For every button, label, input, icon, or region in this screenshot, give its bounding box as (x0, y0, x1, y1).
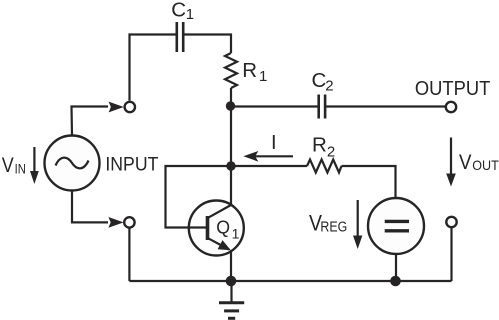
wire C2 to output terminal (325, 105, 445, 107)
arrowhead into top input terminal (109, 102, 124, 113)
wire DC source to bottom node (395, 254, 397, 281)
wire top rail right segment (183, 35, 231, 54)
AC source sine wave (56, 158, 89, 169)
svg-text:IN: IN (15, 161, 26, 177)
AC source circle (45, 136, 100, 191)
wire AC top to arrow (72, 107, 109, 136)
wire feedback loop (166, 166, 232, 228)
svg-text:I: I (271, 132, 277, 154)
label C1 (171, 0, 194, 23)
label R2 (312, 133, 335, 160)
DC source V_REG circle (368, 198, 424, 254)
node junction dot (R1/C2) (226, 101, 235, 110)
svg-text:OUT: OUT (472, 157, 499, 173)
capacitor C2 (319, 95, 325, 119)
svg-text:C: C (312, 69, 327, 92)
arrow V_IN (30, 147, 39, 184)
label OUTPUT (415, 77, 491, 100)
wire bottom rail (129, 280, 451, 282)
label V_IN (2, 154, 26, 177)
label I (271, 132, 277, 154)
wire node to C2 (231, 105, 319, 107)
arrowhead into bottom input terminal (108, 217, 123, 228)
label R1 (242, 59, 267, 85)
transistor Q1 collector line (208, 205, 231, 218)
label V_REG (309, 210, 347, 235)
wire emitter to bottom node (230, 250, 232, 281)
wire AC bottom to arrow (72, 191, 108, 223)
svg-text:C: C (171, 0, 186, 21)
node junction dot (feedback/R2) (226, 161, 235, 170)
wire bottom terminal to bottom rail (128, 228, 130, 281)
label INPUT (105, 154, 158, 176)
output terminal (446, 102, 456, 112)
wire R1 to node (230, 88, 232, 107)
arrow V_REG (353, 200, 362, 249)
svg-text:Q: Q (216, 217, 230, 238)
wire top rail left segment (130, 35, 177, 101)
wire right terminal drop (450, 228, 452, 281)
arrow V_OUT (446, 138, 456, 187)
resistor R2 (307, 160, 342, 173)
input terminal top (125, 102, 135, 112)
label Q1 (216, 217, 239, 242)
wire main vertical node to node (230, 107, 232, 167)
svg-text:1: 1 (232, 225, 240, 241)
ground (219, 281, 244, 318)
svg-text:V: V (2, 154, 14, 177)
svg-text:REG: REG (320, 220, 347, 236)
wire node to R2 (231, 165, 307, 167)
resistor R1 (225, 53, 237, 88)
svg-text:1: 1 (186, 6, 194, 23)
svg-text:OUTPUT: OUTPUT (415, 77, 491, 100)
transistor Q1 base bar (206, 216, 210, 240)
node junction dot (emitter/ground) (226, 276, 237, 287)
label C2 (312, 69, 334, 94)
DC source equals sign (385, 221, 409, 230)
svg-text:INPUT: INPUT (105, 154, 158, 176)
wire base into circle (188, 226, 206, 228)
node junction dot (DC bottom) (390, 276, 401, 287)
svg-text:V: V (459, 151, 472, 174)
transistor Q1 emitter line with arrow (208, 238, 231, 250)
svg-text:2: 2 (325, 78, 333, 95)
svg-text:1: 1 (259, 68, 267, 85)
svg-text:R: R (312, 133, 327, 156)
capacitor C1 (177, 22, 183, 52)
wire R2 to regulator (342, 166, 396, 198)
svg-text:R: R (242, 59, 257, 82)
transistor Q1 body (189, 201, 244, 256)
input terminal bottom (124, 217, 134, 227)
arrow I (243, 151, 293, 162)
wire collector to node (230, 166, 232, 205)
label V_OUT (459, 151, 499, 174)
svg-text:2: 2 (327, 144, 335, 161)
output lower terminal (446, 217, 456, 227)
